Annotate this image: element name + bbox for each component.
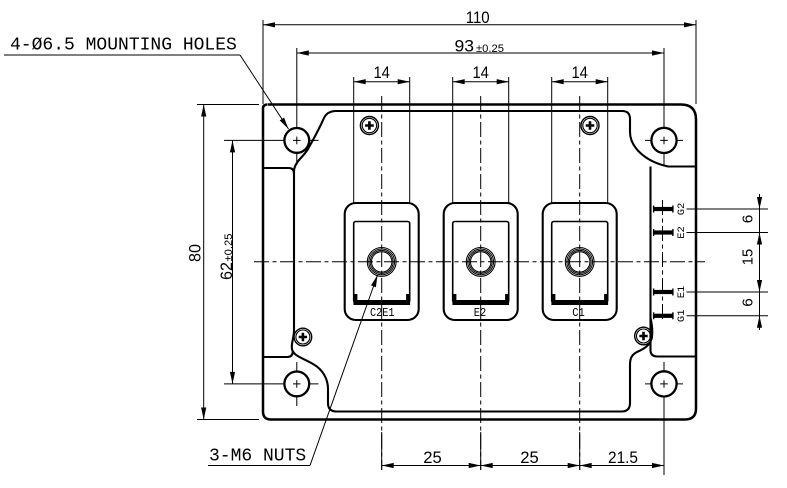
svg-text:25: 25 <box>520 448 539 467</box>
terminal C1 nut <box>565 248 594 277</box>
terminal C2E1 outer <box>345 203 419 320</box>
svg-text:62: 62 <box>217 262 236 280</box>
screw bottom-right <box>635 327 653 345</box>
hole centerlines bottom-right <box>645 362 683 475</box>
svg-text:4-Ø6.5 MOUNTING HOLES: 4-Ø6.5 MOUNTING HOLES <box>10 36 237 56</box>
svg-text:25: 25 <box>423 448 442 467</box>
dimension 25 (right) <box>481 463 580 468</box>
svg-text:14: 14 <box>472 63 489 82</box>
svg-text:G2: G2 <box>676 203 688 216</box>
hole centerlines bottom-left <box>224 362 319 406</box>
bottom extension lines <box>382 432 580 470</box>
svg-text:E2: E2 <box>676 226 688 239</box>
svg-text:C1: C1 <box>572 306 585 320</box>
left bottom step line <box>264 352 293 357</box>
hole centerlines top-left <box>224 48 319 165</box>
svg-text:80: 80 <box>186 244 205 262</box>
terminal E2 nut <box>466 248 495 277</box>
dimension 14 (terminal 2) <box>453 77 509 203</box>
screw bottom-left <box>294 328 312 346</box>
svg-text:±0.25: ±0.25 <box>476 43 504 55</box>
svg-text:93: 93 <box>455 37 475 56</box>
lid top edge and top-right step <box>335 111 695 167</box>
module horizontal centerline <box>254 261 705 263</box>
dimension 6 (E1-G1) <box>757 316 762 328</box>
terminal C2E1 clamp bar <box>353 294 410 305</box>
terminal E2 outer <box>444 203 518 320</box>
terminal E2 vertical centerline <box>480 96 482 470</box>
dimension 93 <box>297 50 664 55</box>
dimension 6 (G2-E2) <box>757 194 762 330</box>
svg-text:±0.25: ±0.25 <box>223 234 235 262</box>
dimension 14 (terminal 1) <box>354 77 410 203</box>
svg-text:14: 14 <box>571 63 588 82</box>
dimension 25 (left) <box>382 463 481 468</box>
pin E1 <box>653 289 674 296</box>
mounting hole top-right <box>651 128 676 153</box>
screw top-left <box>360 117 378 135</box>
pin E2 <box>653 229 674 236</box>
svg-text:E1: E1 <box>676 286 688 299</box>
pin leader lines <box>687 209 769 316</box>
dimension 21.5 <box>580 463 664 468</box>
mounting hole top-left <box>284 128 309 153</box>
mounting hole bottom-right <box>651 371 676 396</box>
svg-text:6: 6 <box>740 298 757 307</box>
svg-text:110: 110 <box>466 8 490 27</box>
terminal C2E1 vertical centerline <box>381 96 383 470</box>
module outer case outline <box>263 105 696 420</box>
svg-text:14: 14 <box>373 63 390 82</box>
pins vertical centerline <box>662 200 664 322</box>
svg-text:E2: E2 <box>474 306 487 320</box>
dimension 80 <box>197 105 259 420</box>
lid main outline (bottom-right S, bottom edge, bottom-left S, left edge, top-left sweep) <box>292 111 653 412</box>
pin G2 <box>653 206 674 213</box>
svg-text:15: 15 <box>740 249 757 266</box>
dimension 110 <box>263 20 696 104</box>
lid right edge and bottom-right step <box>651 167 696 357</box>
pin G1 <box>653 312 674 319</box>
dimension 15 (E2-E1) <box>757 280 762 292</box>
svg-text:G1: G1 <box>676 309 688 322</box>
svg-text:6: 6 <box>740 215 757 224</box>
terminal E2 clamp bar <box>452 294 509 305</box>
mounting hole bottom-left <box>284 372 309 397</box>
terminal C1 clamp bar <box>551 294 608 305</box>
terminal C2E1 nut <box>367 248 396 277</box>
hole centerlines top-right <box>645 48 683 165</box>
dimension 62 <box>230 140 235 384</box>
screw top-right <box>581 117 599 135</box>
svg-text:21.5: 21.5 <box>608 448 638 467</box>
svg-text:C2E1: C2E1 <box>370 306 395 320</box>
left top step line <box>264 168 295 174</box>
svg-text:3-M6 NUTS: 3-M6 NUTS <box>209 447 306 467</box>
terminal C1 vertical centerline <box>579 96 581 470</box>
terminal C1 outer <box>543 203 617 320</box>
dimension 14 (terminal 3) <box>552 77 608 203</box>
